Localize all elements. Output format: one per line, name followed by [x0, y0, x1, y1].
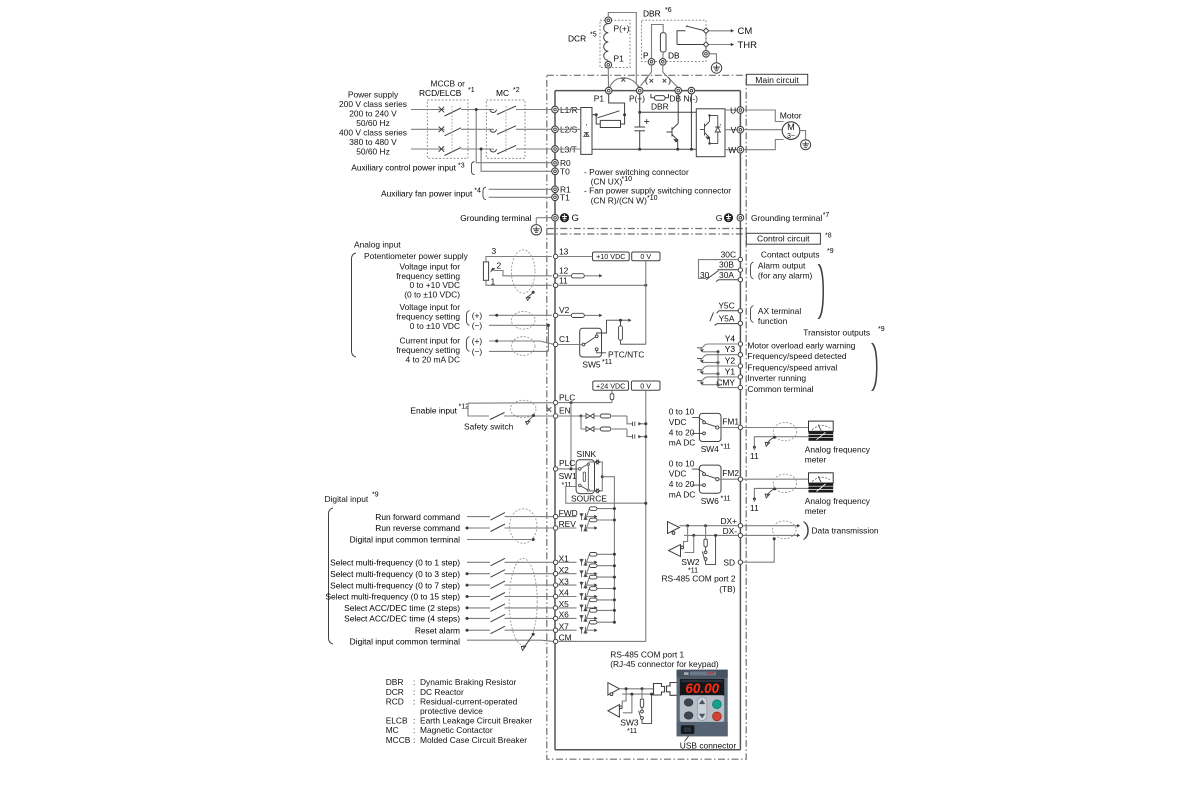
svg-text:Alarm output: Alarm output — [758, 260, 806, 270]
terminal EN — [553, 406, 570, 418]
svg-text:SD: SD — [723, 557, 735, 567]
terminal DB — [675, 87, 682, 94]
smoothing capacitor — [634, 112, 649, 149]
svg-text:(−): (−) — [472, 320, 483, 330]
svg-text:11: 11 — [750, 503, 759, 513]
input glyphs FWD — [580, 513, 587, 520]
DBR wires — [652, 25, 664, 59]
shield ellipse FWD/REV — [510, 509, 537, 544]
grounding terminal G (left) — [536, 213, 579, 224]
terminal X7 — [553, 621, 569, 632]
keypad button panel — [680, 695, 724, 722]
svg-text:DBR: DBR — [386, 677, 404, 687]
wires L1/L2/L3 to rectifier — [558, 110, 581, 150]
SOURCE bottom wire — [566, 487, 646, 504]
P wire to P(+) with connector — [641, 65, 678, 87]
terminal U — [730, 105, 744, 115]
svg-text:DC Reactor: DC Reactor — [420, 687, 464, 697]
terminal 11 — [553, 275, 568, 287]
C1 (+) wire — [489, 341, 554, 344]
EN wire — [558, 415, 581, 417]
power wire row 3 — [411, 148, 552, 150]
safety switch blade — [490, 413, 505, 420]
svg-text:DB: DB — [668, 51, 680, 61]
svg-text:Digital input common terminal: Digital input common terminal — [350, 535, 460, 545]
DX+ wire — [680, 525, 739, 527]
svg-text:P(+): P(+) — [614, 24, 630, 34]
svg-text:Earth Leakage Circuit Breaker: Earth Leakage Circuit Breaker — [420, 716, 532, 726]
svg-text:Auxiliary fan power input: Auxiliary fan power input — [381, 188, 473, 198]
svg-text:Y4: Y4 — [725, 334, 736, 344]
svg-text:T1: T1 — [560, 193, 570, 203]
svg-text:200 V class series: 200 V class series — [339, 99, 407, 109]
svg-text:DX-: DX- — [723, 526, 738, 536]
0V vertical rail — [645, 261, 647, 344]
svg-text:SINK: SINK — [577, 449, 597, 459]
terminal CM — [553, 633, 571, 644]
shield drain arrow pot — [527, 292, 534, 297]
MCCB breaker pole 2 — [439, 127, 461, 136]
svg-text:V2: V2 — [559, 305, 570, 315]
terminal 13 — [553, 246, 568, 258]
svg-text:1: 1 — [491, 276, 496, 286]
svg-text:Data transmission: Data transmission — [812, 525, 879, 535]
PTC resistor — [619, 326, 623, 340]
svg-text:*5: *5 — [590, 32, 597, 39]
input glyphs REV — [580, 525, 587, 532]
svg-text:FM2: FM2 — [722, 468, 739, 478]
DCR wires — [608, 13, 639, 88]
24V fuse drop — [611, 391, 613, 403]
motor wires — [744, 110, 784, 150]
svg-text:protective device: protective device — [420, 706, 483, 716]
svg-text:13: 13 — [559, 246, 569, 256]
svg-text:P: P — [643, 51, 649, 61]
IGBT symbol — [700, 116, 722, 144]
rectifier diode symbol — [584, 124, 589, 137]
svg-text:Grounding terminal: Grounding terminal — [460, 213, 531, 223]
FM1 return wire — [754, 437, 808, 448]
shield drain arrow FM1 — [767, 437, 775, 444]
svg-text:M: M — [787, 122, 795, 132]
contact outputs big bracket — [818, 264, 825, 319]
svg-text:+10 VDC: +10 VDC — [596, 252, 625, 261]
svg-text:11: 11 — [559, 275, 568, 285]
svg-text:SOURCE: SOURCE — [571, 493, 607, 503]
svg-text:0 to ±10 VDC: 0 to ±10 VDC — [410, 321, 460, 331]
terminal 30C — [721, 249, 743, 262]
terminal R1 — [552, 185, 571, 195]
svg-text:Digital input common terminal: Digital input common terminal — [350, 637, 460, 647]
R0 tap wire — [476, 110, 552, 163]
svg-text:50/60 Hz: 50/60 Hz — [356, 118, 390, 128]
shield ellipse FM2 — [773, 474, 796, 492]
svg-text:400 V class series: 400 V class series — [339, 128, 407, 138]
terminal X6 — [553, 610, 569, 621]
svg-text:(−): (−) — [472, 346, 483, 356]
V2 input bracket — [467, 311, 470, 326]
terminal X1 — [553, 554, 569, 565]
R1 wire — [489, 188, 552, 190]
internal DBR resistor — [651, 94, 669, 100]
svg-text:Select multi-frequency (0 to 1: Select multi-frequency (0 to 1 step) — [330, 558, 460, 568]
DCR inductor — [604, 24, 609, 61]
svg-text:*1: *1 — [468, 87, 475, 94]
svg-text:Magnetic Contactor: Magnetic Contactor — [420, 725, 493, 735]
svg-text::: : — [413, 716, 415, 726]
shield drain arrow digital — [524, 634, 534, 648]
AX terminal bracket — [751, 306, 754, 323]
svg-text:4 to 20 mA DC: 4 to 20 mA DC — [406, 354, 460, 364]
shield ellipse enable — [510, 400, 536, 417]
port1 driver triangle — [608, 683, 620, 696]
charging resistor circuit — [592, 94, 625, 128]
MCCB breaker pole 3 — [439, 146, 461, 155]
svg-text:Select ACC/DEC time (2 steps): Select ACC/DEC time (2 steps) — [344, 603, 460, 613]
Control circuit label — [746, 233, 820, 244]
DBR ground terminal — [703, 51, 710, 58]
terminal P(+) — [636, 87, 643, 94]
svg-text:C1: C1 — [559, 334, 570, 344]
CM to 0V rail corner — [558, 640, 646, 642]
svg-text:Motor overload early warning: Motor overload early warning — [747, 340, 855, 350]
MC contact pole 3 — [490, 146, 516, 155]
motor ground symbol — [801, 140, 811, 150]
transistor output Y1 — [697, 366, 806, 386]
svg-text:30B: 30B — [719, 260, 734, 270]
USB connector pointer — [685, 736, 690, 742]
svg-text:*10: *10 — [622, 176, 633, 183]
MCCB breaker pole 1 — [439, 107, 461, 116]
data transmission bracket — [803, 522, 809, 540]
DBR resistor — [660, 33, 666, 52]
svg-text:4 to 20: 4 to 20 — [669, 479, 695, 489]
MC contact pole 2 — [490, 126, 516, 135]
svg-text:(+): (+) — [472, 310, 483, 320]
svg-text:Enable input: Enable input — [410, 405, 457, 415]
svg-text:DB: DB — [670, 94, 682, 104]
terminal T0 — [552, 167, 570, 177]
svg-text:G: G — [716, 213, 723, 223]
svg-text:DCR: DCR — [568, 34, 586, 44]
svg-text:P1: P1 — [614, 54, 625, 64]
input glyphs X6 — [580, 615, 587, 622]
svg-text:Reset alarm: Reset alarm — [415, 625, 460, 635]
terminal T1 — [552, 193, 570, 203]
svg-text:V: V — [731, 125, 737, 135]
SW6 contacts — [692, 469, 719, 486]
svg-text:mA DC: mA DC — [669, 438, 696, 448]
svg-text:SW2: SW2 — [681, 557, 699, 567]
PTC junction and arrow — [607, 319, 629, 321]
svg-text:Digital input: Digital input — [325, 494, 369, 504]
wire 11 internal — [558, 284, 646, 286]
terminal PLC 2 — [553, 458, 575, 471]
svg-text:T0: T0 — [560, 167, 570, 177]
svg-text:- Power switching connector: - Power switching connector — [584, 167, 689, 177]
enable input wires — [468, 403, 553, 416]
input glyphs X7 — [580, 627, 587, 634]
MC mechanism dotted link — [505, 106, 507, 152]
svg-text:11: 11 — [750, 451, 759, 461]
EN branch drop — [580, 416, 582, 429]
svg-text::: : — [413, 735, 415, 745]
svg-text:30C: 30C — [721, 249, 736, 259]
svg-text:(+): (+) — [472, 336, 483, 346]
svg-text:Y3: Y3 — [725, 344, 736, 354]
svg-text:function: function — [758, 316, 788, 326]
T0 tap wire — [481, 149, 552, 171]
svg-text:Analog input: Analog input — [354, 239, 401, 249]
svg-text:*11: *11 — [602, 359, 612, 366]
transistor output Y4 — [697, 334, 856, 354]
SW4 box — [699, 413, 721, 441]
shield ellipse X1-CM — [509, 558, 537, 645]
terminal 12 — [553, 266, 568, 278]
svg-text:MC: MC — [386, 725, 399, 735]
svg-text:Analog frequency: Analog frequency — [805, 444, 871, 454]
svg-text:DX+: DX+ — [720, 516, 737, 526]
port1 receiver triangle — [608, 705, 622, 718]
SW1 output to digital bus — [602, 477, 614, 623]
svg-text:*9: *9 — [827, 248, 834, 255]
terminal FWD — [553, 508, 577, 519]
border crossing x-mark — [547, 407, 552, 412]
svg-text:G: G — [572, 213, 579, 224]
svg-text:Control circuit: Control circuit — [757, 234, 810, 244]
svg-text:EN: EN — [559, 406, 571, 416]
svg-text:Contact outputs: Contact outputs — [761, 249, 820, 259]
svg-text:0 V: 0 V — [640, 252, 651, 261]
PLC drop to SW1 — [570, 403, 572, 469]
svg-text:SW1: SW1 — [559, 471, 577, 481]
analog input group bracket — [352, 253, 357, 357]
svg-text:RS-485 COM port 2: RS-485 COM port 2 — [661, 574, 735, 584]
PLC2 wire — [558, 468, 578, 470]
terminal SD — [723, 557, 742, 567]
svg-text:*11: *11 — [562, 482, 572, 489]
svg-text:Y2: Y2 — [725, 356, 736, 366]
svg-text:Molded Case Circuit Breaker: Molded Case Circuit Breaker — [420, 735, 527, 745]
svg-text:(TB): (TB) — [719, 584, 735, 594]
svg-text:Dynamic Braking Resistor: Dynamic Braking Resistor — [420, 677, 517, 687]
svg-text:MC: MC — [496, 88, 509, 98]
terminal L3/T — [552, 144, 577, 154]
terminal X3 — [553, 576, 569, 587]
DX- wire — [684, 534, 738, 536]
svg-text:PLC: PLC — [559, 392, 575, 402]
DCR terminal P(+) top — [605, 17, 612, 24]
FM1 output wire — [743, 427, 809, 429]
svg-text:*11: *11 — [721, 444, 731, 451]
svg-text:W: W — [728, 145, 736, 155]
current input text block — [396, 336, 460, 365]
svg-text:*4: *4 — [474, 187, 481, 194]
DC bottom rail — [592, 148, 696, 150]
CM wire — [709, 30, 731, 32]
svg-text:CMY: CMY — [716, 377, 735, 387]
terminal V2 — [553, 305, 569, 318]
SW1 box — [576, 460, 594, 494]
EN opto branch 2 — [581, 429, 646, 437]
svg-text:THR: THR — [738, 40, 758, 51]
terminal DX+ — [720, 516, 742, 528]
SW3 switch — [639, 694, 652, 723]
svg-text:60.00: 60.00 — [685, 681, 719, 696]
svg-text:P(+): P(+) — [629, 94, 645, 104]
svg-text:*11: *11 — [721, 495, 731, 502]
terminal N(-) — [688, 87, 695, 94]
transistor output CMY (common) — [716, 352, 813, 394]
svg-text:SW4: SW4 — [701, 444, 719, 454]
DCR terminal P1 bottom — [605, 61, 612, 68]
svg-text:0 V: 0 V — [640, 381, 651, 390]
svg-text:50/60 Hz: 50/60 Hz — [356, 147, 390, 157]
SW2 switch — [702, 535, 715, 564]
alarm output bracket — [751, 262, 754, 279]
terminal R0 — [552, 158, 571, 168]
svg-text:CM: CM — [738, 26, 753, 37]
DBR terminal DB — [660, 59, 667, 66]
0V rail down — [645, 391, 647, 642]
svg-text:VDC: VDC — [669, 469, 687, 479]
terminal 30A — [738, 278, 742, 282]
data transmission wires — [743, 525, 798, 527]
PLC wire — [558, 402, 612, 404]
SW1 sink link — [588, 462, 602, 491]
svg-text:*10: *10 — [647, 195, 658, 202]
T1 wire — [489, 196, 552, 198]
shield drain arrow FM2 — [767, 489, 775, 496]
svg-text:Residual-current-operated: Residual-current-operated — [420, 696, 518, 706]
svg-text:Select multi-frequency (0 to 3: Select multi-frequency (0 to 3 step) — [330, 569, 460, 579]
svg-text::: : — [413, 677, 415, 687]
DBR terminal P — [648, 59, 655, 66]
svg-text:Select ACC/DEC time (4 steps): Select ACC/DEC time (4 steps) — [344, 614, 460, 624]
IGBT inverter box — [696, 109, 725, 157]
shield ellipse FM1 — [773, 422, 796, 440]
terminal 30B — [738, 268, 742, 272]
svg-text:30A: 30A — [719, 270, 734, 280]
svg-text:PTC/NTC: PTC/NTC — [608, 349, 644, 359]
pot wire 3 — [486, 257, 552, 262]
svg-text:(RJ-45 connector for keypad): (RJ-45 connector for keypad) — [610, 659, 719, 669]
svg-text:SW6: SW6 — [701, 496, 719, 506]
transistor outputs big bracket — [871, 343, 878, 391]
svg-text:PLC: PLC — [559, 458, 575, 468]
shield ellipse pot — [511, 250, 535, 293]
minus common vertical — [547, 325, 549, 351]
svg-text:380 to 480 V: 380 to 480 V — [349, 137, 397, 147]
digital input group bracket — [329, 508, 334, 644]
0 V box (24V) — [631, 381, 660, 390]
+10 VDC box — [593, 252, 630, 261]
Y5C/Y5A relay — [717, 311, 739, 314]
power supply text block — [339, 90, 407, 157]
svg-text:Run reverse command: Run reverse command — [375, 523, 460, 533]
terminal L1/R — [552, 105, 578, 115]
svg-text:(for any alarm): (for any alarm) — [758, 271, 813, 281]
potentiometer — [483, 262, 488, 280]
DCR dashed box — [600, 20, 630, 67]
30A contact bar — [716, 280, 738, 282]
svg-text:Common terminal: Common terminal — [747, 384, 813, 394]
svg-text:P1: P1 — [594, 94, 605, 104]
FM1 selector texts — [669, 407, 696, 448]
motor ground wire — [800, 131, 806, 140]
braking transistor — [667, 94, 679, 149]
svg-text:200 to 240 V: 200 to 240 V — [349, 109, 397, 119]
DBR ground symbol — [711, 63, 721, 73]
svg-text:- Fan power supply switching c: - Fan power supply switching connector — [584, 186, 731, 196]
terminal PLC — [553, 392, 575, 405]
connector symbol (CN) left — [646, 78, 653, 85]
SW5 box — [580, 328, 602, 357]
svg-text:N(-): N(-) — [684, 94, 699, 104]
svg-text:mA DC: mA DC — [669, 489, 696, 499]
svg-text:Grounding terminal: Grounding terminal — [751, 213, 822, 223]
MC contact pole 1 — [490, 106, 516, 115]
terminal X4 — [553, 588, 569, 599]
svg-text:*6: *6 — [665, 7, 672, 14]
input glyphs X3 — [580, 582, 587, 589]
svg-text:*3: *3 — [458, 163, 465, 170]
voltage input text block 1 — [396, 261, 460, 299]
shield drain arrow enable — [526, 416, 534, 423]
pot wire 2 — [494, 271, 552, 276]
terminal DX- — [723, 526, 743, 537]
svg-text:*8: *8 — [825, 233, 832, 240]
V2 (-) wire — [489, 324, 548, 326]
svg-text:FM1: FM1 — [722, 417, 739, 427]
ground symbol (left) — [531, 225, 541, 235]
transistor output Y2 — [697, 356, 837, 376]
svg-text:USB connector: USB connector — [680, 741, 737, 751]
svg-text:*7: *7 — [823, 212, 830, 219]
svg-text:*11: *11 — [627, 728, 637, 735]
FM2 output wire — [743, 478, 809, 480]
input glyphs X4 — [580, 593, 587, 600]
terminal W — [728, 145, 743, 155]
0 V box — [632, 252, 660, 261]
MCCB mechanism dotted link — [451, 106, 453, 152]
RS-485 driver triangle — [668, 522, 680, 535]
svg-text:meter: meter — [805, 506, 827, 516]
port1 wires — [619, 689, 653, 713]
svg-text:DBR: DBR — [643, 9, 661, 19]
SW4 contacts — [692, 417, 719, 434]
svg-text:4 to 20: 4 to 20 — [669, 427, 695, 437]
svg-text:3: 3 — [492, 246, 497, 256]
power wire row 1 — [411, 109, 552, 111]
svg-text:Frequency/speed detected: Frequency/speed detected — [747, 351, 847, 361]
svg-text:meter: meter — [805, 455, 827, 465]
power wire row 2 — [411, 128, 552, 130]
svg-text:*2: *2 — [513, 87, 520, 94]
port1 terminator resistor — [640, 699, 643, 708]
svg-text:Power supply: Power supply — [348, 90, 399, 100]
MCCB dashed box — [427, 100, 468, 158]
svg-text:Safety switch: Safety switch — [464, 422, 514, 432]
terminal X2 — [553, 565, 569, 576]
svg-text::: : — [413, 696, 415, 706]
Main circuit label — [746, 74, 807, 85]
svg-text:0 to 10: 0 to 10 — [669, 407, 695, 417]
svg-text:VDC: VDC — [669, 417, 687, 427]
keypad display — [680, 679, 724, 696]
svg-text:SW5: SW5 — [582, 359, 600, 369]
terminal L2/S — [552, 125, 578, 135]
